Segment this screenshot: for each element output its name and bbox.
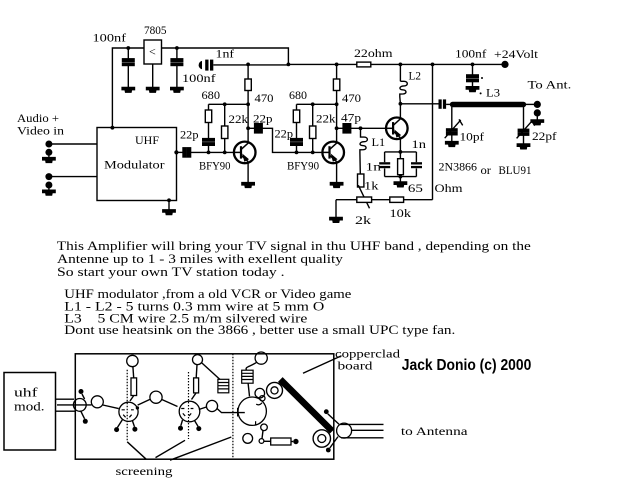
wire R6 bottom to base net [312, 139, 314, 153]
wire pad4 to Q3pcb [217, 409, 245, 413]
transistor Q1 pcb circle [119, 402, 138, 421]
wire R1 bottom to collector node [247, 91, 249, 142]
svg-text:This Amplifier will bring your: This Amplifier will bring your TV signal… [57, 239, 532, 253]
node pad circle bottomleft of Q3 [243, 434, 253, 444]
svg-text:1nf: 1nf [216, 47, 235, 61]
module U1 UHF Modulator box [97, 128, 177, 201]
wire top1 to R pcb1 [132, 367, 135, 378]
transistor Q3 pcb circle [238, 397, 266, 425]
wire feed lines modulator to board [56, 399, 92, 411]
node terminal antenna ground dot [534, 109, 541, 116]
wire ring to Rpcb3 [264, 440, 271, 442]
transistor Q1 pcb leg ticks [122, 410, 134, 418]
node solder dot antenna top [324, 409, 329, 414]
wire Q2pcb lead left [181, 420, 183, 426]
resistor R9 22ohm body [357, 62, 371, 67]
svg-text:UHF: UHF [135, 133, 159, 147]
wire rail2 supply [213, 63, 505, 66]
wire bottom bias rail [336, 199, 433, 201]
ground under CT2 [517, 144, 529, 149]
wire bias1 horizontal [209, 103, 249, 105]
svg-text:680: 680 [289, 88, 307, 102]
node junction bias2 R6 [311, 102, 315, 106]
wire screening pointer2 [156, 440, 186, 457]
wire rail1 7805 left [112, 48, 144, 128]
wire C11 to L3 [446, 103, 452, 105]
wire coil2 to Q3pcb [248, 383, 249, 396]
stray dot b [480, 92, 482, 94]
svg-text:100nf: 100nf [182, 71, 216, 85]
wire CT1 trimmer arrow [445, 119, 463, 138]
wire emitter net bottom bar [385, 176, 417, 178]
wire Q1pcb lead right [133, 421, 135, 427]
resistor pcb R1 body [131, 378, 137, 396]
capacitor C10 100nf plates [467, 75, 479, 82]
node junction stage2 base R6 [311, 151, 315, 155]
wire Q2pcb lead right [195, 421, 199, 427]
screen wall1 dotted [126, 370, 128, 442]
node solder dot Q1 wire junction [136, 406, 139, 409]
svg-text:65: 65 [408, 181, 423, 195]
ground Q1 emitter [242, 183, 254, 188]
resistor R1 470 body [245, 79, 251, 91]
node trimmer pcb bottom outer [313, 430, 330, 447]
svg-text:Modulator: Modulator [104, 158, 165, 172]
resistor R3 22k body [222, 126, 228, 139]
wire R8 leads [399, 152, 401, 177]
node junction base net R3 [223, 151, 227, 155]
transistor Q1 BFY90 [234, 142, 256, 164]
ground under C1 [122, 87, 134, 92]
ground under C10 [466, 87, 478, 92]
svg-text:22k: 22k [316, 112, 336, 126]
wire C6 to stage2 base [262, 128, 322, 152]
node junction C1 top [126, 46, 130, 50]
wire L3 to antenna [524, 103, 537, 105]
svg-text:100nf: 100nf [455, 47, 486, 61]
node junction modulator top pin [111, 126, 115, 130]
node terminal input2 [45, 173, 52, 180]
node terminal video in top [45, 141, 52, 148]
node solder dot below input [83, 419, 88, 424]
svg-text:BFY90: BFY90 [199, 159, 231, 173]
node pad input circle [73, 399, 86, 412]
node terminal input2 ground dot [45, 182, 52, 189]
inductor L2 coil [400, 81, 407, 104]
wire pad2 to Q1pcb [103, 405, 119, 409]
svg-text:To Ant.: To Ant. [528, 78, 572, 92]
svg-text:1n: 1n [366, 160, 382, 174]
wire top2 to coil1 [202, 363, 221, 380]
node solder dot Q2 left [178, 426, 183, 431]
screen wall2 dotted [188, 372, 190, 439]
wire Q2 emitter [336, 163, 338, 182]
ground under CT1 [446, 142, 458, 147]
svg-text:2k: 2k [355, 213, 371, 227]
capacitor C12 1n plates [379, 162, 390, 164]
svg-text:22ohm: 22ohm [354, 46, 393, 60]
node trimmer pcb top outer [267, 382, 283, 398]
node pad circle4 [206, 400, 217, 411]
svg-text:22p: 22p [253, 111, 273, 125]
svg-text:Video in: Video in [17, 124, 64, 138]
wire R5 top lead [336, 64, 338, 79]
resistor R5 470 body [333, 79, 339, 91]
capacitor C6 22p plates [255, 124, 263, 133]
capacitor C3 1nf plates [205, 60, 208, 71]
svg-text:7805: 7805 [144, 23, 167, 37]
wire CT2 top lead [523, 107, 525, 129]
wire copperclad pointer [303, 356, 342, 374]
svg-text:22p: 22p [275, 127, 294, 141]
board copperclad outline [75, 354, 334, 459]
node junction emitter net top [399, 150, 403, 154]
wire Q2 collector to C8 [337, 127, 344, 129]
resistor R6 22k body [310, 126, 316, 139]
wire Q1pcb lead left [117, 420, 122, 428]
wire Rpcb2 to Q2pcb [192, 393, 197, 400]
wire input2 to modulator [49, 176, 97, 178]
wire pad mid to Q2pcb [162, 400, 178, 407]
node solder dot Q1 right [132, 427, 137, 432]
wire Q3pcb inner arc [256, 403, 262, 405]
wire modulator output to C4 [176, 151, 183, 153]
wire C12 top lead [384, 152, 386, 162]
wire CT2 bottom lead [523, 135, 525, 144]
svg-text:board: board [338, 361, 373, 373]
svg-text:2N3866: 2N3866 [439, 160, 478, 174]
wire input2 ground stem [48, 185, 50, 190]
ground under C2 [171, 87, 183, 92]
node pcb circle top2 [193, 355, 203, 365]
wire screening pointer1 [127, 442, 146, 460]
wire screening pointer3 [170, 437, 231, 460]
wire antenna dot bottom link [330, 437, 338, 448]
wire rail1 7805 right to corner [162, 48, 289, 64]
wire Q3 to ring bottom [262, 431, 263, 439]
node trimmer pcb top inner [271, 387, 278, 394]
svg-text:mod.: mod. [14, 400, 45, 414]
wire bias2 horizontal [297, 103, 337, 105]
inductor L3 pcb thick bar [280, 380, 332, 432]
wire R5 bottom to collector node [336, 91, 338, 142]
transistor Q2 pcb circle [179, 401, 200, 422]
stray dot a [481, 77, 483, 79]
node junction Q2 collector out [335, 126, 339, 130]
node junction modulator bottom pin [167, 198, 171, 202]
capacitor C1 100nf lead [127, 48, 129, 87]
wire Q1 emitter [247, 163, 249, 182]
transistor Q3 2N3866 [386, 118, 408, 140]
node solder dot antenna bottom [326, 448, 331, 453]
node pcb circle top1 [127, 355, 138, 366]
wire top2 to Rpcb2 [195, 365, 198, 378]
wire Q3pcb bottom tick [255, 421, 257, 425]
wire bias rail left drop [335, 200, 337, 218]
inductor L1 coil [360, 128, 367, 174]
wire R4 top lead [296, 104, 298, 110]
wire antenna dot top link [328, 414, 339, 425]
wire R3 bottom to base net [224, 139, 226, 153]
ground emitter network [394, 182, 406, 187]
wire emitter ground stem [399, 177, 401, 182]
capacitor C10 100nf lead [472, 64, 474, 86]
wire feedback vertical [432, 64, 434, 199]
node junction C10 top [471, 63, 475, 67]
node junction L2 top [399, 63, 403, 67]
wire CT1 top lead [451, 107, 453, 129]
capacitor CT1 10pf trimmer plates [447, 129, 457, 135]
svg-text:1k: 1k [364, 179, 379, 193]
capacitor C2 100nf plates [171, 59, 183, 66]
transistor Q2 BFY90 [322, 142, 344, 164]
node terminal antenna signal [534, 101, 541, 108]
wire antenna ground stem [536, 113, 538, 120]
ground Q2 emitter [330, 183, 342, 188]
node junction modulator output [174, 150, 178, 154]
wire R7 wiper diagonal [358, 185, 369, 208]
svg-text:Jack Donio (c) 2000: Jack Donio (c) 2000 [402, 357, 532, 374]
svg-text:uhf: uhf [14, 386, 39, 400]
wire input1 to modulator [49, 143, 97, 145]
wire C7 to base net [296, 146, 298, 153]
capacitor C7 bypass plates [291, 139, 303, 146]
wire C13 bottom lead [415, 168, 417, 176]
svg-text:to Antenna: to Antenna [401, 424, 468, 438]
wire collector node to C11 [400, 103, 438, 105]
wire Q1 collector to C6 [248, 127, 255, 129]
wire CT1 bottom lead [451, 135, 453, 142]
ground antenna terminal [531, 120, 543, 125]
svg-text:BLU91: BLU91 [499, 163, 532, 177]
wire input dot link [82, 394, 85, 399]
svg-text:1n: 1n [412, 137, 427, 151]
wire R4 bottom to C7 [296, 123, 298, 139]
screen wall3 dotted [232, 354, 234, 459]
capacitor C3 1nf feedthrough disc [199, 61, 202, 69]
transistor Q2 pcb leg ticks [181, 409, 193, 417]
resistor R8 65ohm body [398, 159, 404, 175]
node junction Q1 collector out [246, 126, 250, 130]
svg-text:10k: 10k [390, 206, 412, 220]
svg-text:22pf: 22pf [532, 129, 557, 143]
node junction R5 top [335, 63, 339, 67]
node solder dot Q1 left [114, 427, 119, 432]
capacitor CT2 22pf trimmer plates [518, 129, 528, 135]
capacitor C8 47p plates [343, 124, 351, 133]
wire C4 to Q1 base [191, 151, 234, 153]
wire R6 top lead [312, 104, 314, 126]
node junction bias1 R3 [223, 102, 227, 106]
svg-text:<: < [149, 45, 156, 59]
resistor R4 680 body [293, 110, 299, 123]
svg-text:L1: L1 [372, 135, 386, 149]
wire R3 top lead [224, 104, 226, 126]
wire R2 bottom to C5 [208, 123, 210, 139]
inductor pcb coil1 [218, 379, 229, 393]
resistor R7 1k body [358, 174, 364, 187]
node solder dot Q2 right [196, 426, 201, 431]
node antenna pad circle [337, 423, 352, 438]
ground under modulator [163, 210, 175, 215]
svg-text:470: 470 [342, 91, 361, 105]
svg-text:22k: 22k [229, 112, 249, 126]
regulator U2 7805 box [144, 40, 162, 64]
node junction emitter net bottom [399, 175, 403, 179]
inductor L3 stripline bar [453, 102, 524, 107]
node junction Q3 base L1 [359, 126, 363, 130]
svg-text:So start your own TV station t: So start your own TV station today . [57, 265, 285, 279]
svg-text:Dont use heatsink on the 3866: Dont use heatsink on the 3866 , better u… [64, 323, 455, 337]
resistor R11 10k body [390, 197, 404, 202]
svg-text:screening: screening [116, 464, 173, 478]
node junction R1 top [246, 63, 250, 67]
node trimmer pcb bottom inner [318, 435, 326, 443]
node pad circle near Q3 [255, 388, 265, 398]
capacitor C11 coupling plates [439, 99, 442, 108]
wire input dot link2 [81, 411, 85, 419]
svg-text:or: or [481, 163, 492, 177]
node pad circle2 [91, 396, 103, 408]
svg-text:Ohm: Ohm [435, 181, 464, 195]
wire C13 top lead [415, 152, 417, 162]
svg-text:BFY90: BFY90 [287, 159, 319, 173]
capacitor C13 1n plates [411, 162, 422, 164]
svg-text:470: 470 [255, 91, 274, 105]
node solder dot Rpcb3 right [293, 439, 298, 444]
svg-text:+24Volt: +24Volt [494, 47, 539, 61]
svg-text:10pf: 10pf [460, 130, 485, 144]
wire Q3pcb base tick [237, 408, 239, 417]
wire Rpcb1 to Q1pcb [130, 396, 134, 402]
node junction feedback top [431, 63, 435, 67]
wire top3 to coil2 [246, 362, 257, 370]
svg-text:L3: L3 [486, 86, 500, 100]
node terminal input1 ground dot [45, 149, 52, 156]
wire C8 to Q3 base [351, 127, 386, 129]
node junction C2 top [175, 46, 179, 50]
capacitor C4 22p plates [183, 148, 191, 157]
node junction bias2 [335, 102, 339, 106]
node pcb circle top3 [255, 352, 267, 364]
wire C12 bottom lead [384, 168, 386, 176]
node junction rail corner [287, 63, 291, 67]
ground input1 [43, 158, 55, 163]
ground input2 [43, 190, 55, 195]
ground bias rail [330, 218, 342, 223]
capacitor C2 100nf lead [176, 48, 178, 87]
svg-text:47p: 47p [341, 111, 361, 125]
resistor pcb R3 horizontal body [271, 438, 291, 445]
ground under 7805 [147, 87, 159, 92]
wire R1 top lead [247, 64, 249, 79]
wire Rpcb3 to dot [291, 441, 293, 443]
wire input1 ground stem [48, 152, 50, 157]
resistor R10 2k body [357, 197, 372, 202]
wire 7805 ground pin [152, 64, 154, 87]
module uhf mod box [4, 373, 56, 451]
node junction bias1 [246, 102, 250, 106]
resistor pcb R2 body [194, 378, 199, 393]
svg-text:copperclad: copperclad [335, 349, 400, 361]
wire modulator ground stem [168, 201, 170, 210]
svg-text:100nf: 100nf [93, 31, 127, 45]
svg-text:L2: L2 [409, 69, 422, 83]
capacitor C1 100nf plates [123, 59, 135, 66]
wire antenna leads [340, 424, 384, 437]
svg-text:22p: 22p [180, 128, 199, 142]
wire L2 top lead [399, 64, 401, 81]
wire emitter net top bar [385, 151, 417, 153]
wire Q1pcb to pad mid [138, 399, 151, 405]
node junction Q3 collector [399, 102, 403, 106]
node junction stage2 base C7 [295, 151, 299, 155]
resistor R2 680 body [205, 110, 211, 123]
node pad circle below Q3 [261, 424, 268, 431]
node solder dot above input [79, 389, 84, 394]
node pad ring small Q3 [260, 396, 265, 401]
node terminal +24Volt [501, 61, 508, 68]
wire Q3 emitter [399, 139, 401, 152]
node pad ring bottom [259, 439, 264, 444]
wire Q3 collector lead [399, 104, 401, 118]
wire C5 to base net [208, 146, 210, 153]
wire R2 top lead [208, 104, 210, 110]
capacitor C5 bypass plates [203, 139, 215, 146]
node pad circle mid [150, 391, 162, 403]
wire CT2 trimmer arrow [517, 120, 535, 139]
node junction base net R2 [207, 151, 211, 155]
wire Q2pcb to pad4 [199, 407, 207, 410]
inductor pcb coil2 [242, 370, 253, 383]
svg-text:680: 680 [202, 88, 221, 102]
